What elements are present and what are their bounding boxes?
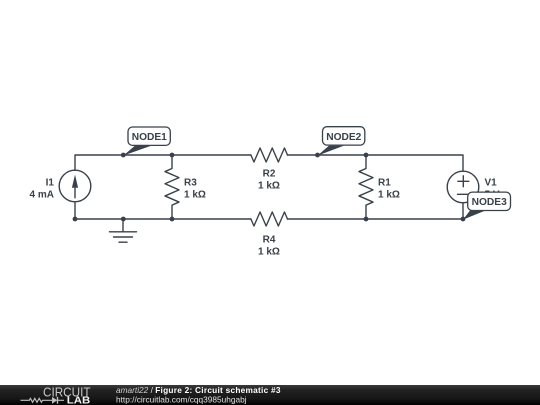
resistor R2	[251, 148, 288, 162]
footer logo LAB	[67, 396, 91, 405]
svg-text:NODE3: NODE3	[472, 197, 507, 208]
label V1 value	[485, 177, 500, 200]
node junction ground tap	[121, 217, 126, 222]
node junction R1 top	[364, 153, 369, 158]
resistor R3	[165, 155, 179, 219]
wire bottom-left rail	[75, 202, 251, 219]
footer bar	[0, 385, 540, 405]
resistor R1	[359, 155, 373, 219]
label R2 value	[258, 168, 280, 191]
svg-text:I1: I1	[46, 177, 55, 188]
resistor R4	[251, 212, 288, 226]
svg-text:R2: R2	[263, 168, 276, 179]
svg-text:R4: R4	[263, 235, 276, 246]
ground	[110, 219, 137, 242]
svg-text:http://circuitlab.com/cqq3985u: http://circuitlab.com/cqq3985uhgabj	[116, 394, 247, 404]
svg-text:amarti22 / Figure 2: Circuit s: amarti22 / Figure 2: Circuit schematic #…	[116, 385, 281, 395]
label R1 value	[378, 177, 400, 200]
voltage source V1	[447, 171, 479, 203]
svg-text:1 kΩ: 1 kΩ	[378, 189, 400, 200]
svg-text:4 mA: 4 mA	[30, 189, 54, 200]
label R4 value	[258, 235, 280, 258]
node B NODE2 callout	[318, 127, 365, 156]
svg-text:1 kΩ: 1 kΩ	[258, 246, 280, 257]
node junction NODE2 dot	[315, 153, 320, 158]
svg-text:1 kΩ: 1 kΩ	[184, 189, 206, 200]
svg-text:LAB: LAB	[67, 396, 91, 405]
node junction R3 bottom	[170, 217, 175, 222]
svg-text:1 kΩ: 1 kΩ	[258, 180, 280, 191]
label R3 value	[184, 177, 206, 200]
node junction NODE3 dot	[461, 217, 466, 222]
current source I1	[59, 170, 91, 202]
svg-text:V1: V1	[485, 177, 498, 188]
node junction bottom-left	[73, 217, 78, 222]
svg-text:R1: R1	[378, 177, 391, 188]
svg-text:NODE2: NODE2	[326, 132, 361, 143]
node C NODE3 callout	[463, 192, 511, 220]
wire top-left rail	[75, 155, 251, 170]
footer logo CIRCUIT	[43, 384, 91, 399]
node A NODE1 callout	[123, 127, 170, 156]
node junction R3 top	[170, 153, 175, 158]
footer title line	[116, 385, 281, 395]
wire top-right rail	[287, 155, 463, 171]
footer url line	[116, 394, 247, 404]
svg-text:R3: R3	[184, 177, 197, 188]
svg-text:NODE1: NODE1	[132, 132, 167, 143]
label I1 value	[30, 177, 55, 200]
node junction NODE1 dot	[121, 153, 126, 158]
node junction R1 bottom	[364, 217, 369, 222]
wire bottom-right rail	[287, 203, 463, 219]
footer logo wire with resistor and diode	[21, 397, 65, 404]
